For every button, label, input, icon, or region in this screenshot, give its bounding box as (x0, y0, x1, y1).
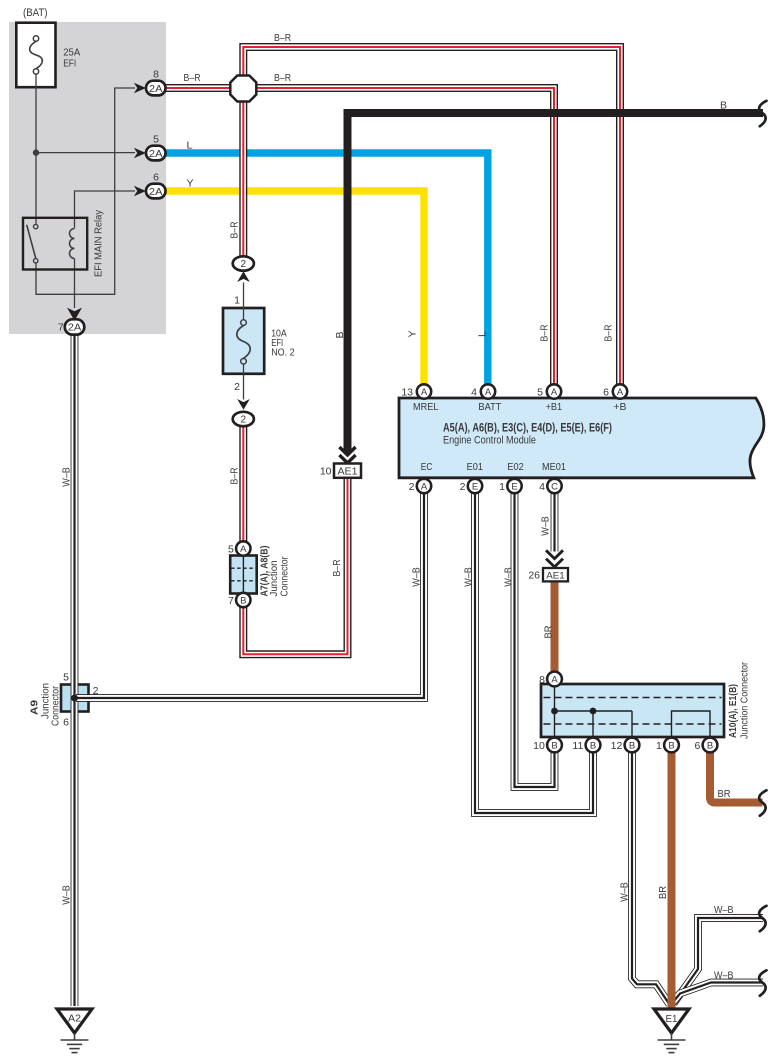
svg-text:W–B: W–B (412, 567, 423, 587)
svg-text:2A: 2A (149, 83, 163, 95)
svg-text:B–R: B–R (540, 325, 551, 342)
svg-text:B: B (720, 101, 727, 112)
svg-text:B: B (240, 595, 246, 606)
svg-text:6: 6 (603, 386, 609, 398)
svg-text:B–R: B–R (184, 73, 201, 84)
svg-text:5: 5 (63, 672, 69, 684)
svg-text:MREL: MREL (413, 401, 439, 413)
svg-text:B–R: B–R (230, 222, 241, 239)
svg-text:W–B: W–B (504, 567, 515, 587)
svg-text:A10(A), E1(B): A10(A), E1(B) (728, 684, 739, 738)
svg-text:2: 2 (241, 259, 247, 270)
svg-text:E1: E1 (666, 1014, 678, 1025)
svg-text:A: A (551, 387, 558, 398)
svg-text:2A: 2A (149, 148, 163, 160)
svg-text:A: A (421, 387, 428, 398)
svg-text:(BAT): (BAT) (23, 7, 48, 19)
svg-text:B: B (590, 740, 596, 751)
svg-text:B: B (335, 331, 346, 338)
svg-text:B–R: B–R (230, 468, 241, 485)
svg-text:5: 5 (228, 543, 234, 555)
svg-text:AE1: AE1 (338, 467, 358, 478)
svg-text:L: L (187, 141, 193, 152)
svg-text:A5(A), A6(B), E3(C), E4(D), E5: A5(A), A6(B), E3(C), E4(D), E5(E), E6(F) (443, 421, 612, 435)
svg-text:C: C (551, 481, 558, 492)
svg-text:A: A (240, 544, 247, 555)
svg-text:+B1: +B1 (546, 401, 563, 413)
svg-text:B: B (668, 740, 674, 751)
svg-text:BR: BR (544, 626, 555, 639)
svg-text:EC: EC (421, 461, 433, 473)
svg-text:L: L (478, 331, 489, 337)
svg-text:2: 2 (234, 381, 240, 393)
svg-text:B: B (629, 740, 635, 751)
svg-text:4: 4 (471, 386, 477, 398)
svg-text:2A: 2A (149, 186, 163, 198)
svg-text:1: 1 (234, 295, 240, 307)
svg-text:A: A (617, 387, 624, 398)
svg-text:1: 1 (499, 481, 505, 493)
svg-text:6: 6 (153, 172, 159, 184)
svg-text:2: 2 (460, 481, 466, 493)
svg-text:Connector: Connector (280, 556, 291, 597)
svg-text:6: 6 (63, 717, 69, 729)
svg-text:10: 10 (533, 740, 545, 752)
svg-text:BATT: BATT (478, 401, 502, 413)
svg-text:Y: Y (408, 330, 419, 337)
svg-text:W–B: W–B (62, 885, 73, 905)
svg-text:W–B: W–B (541, 516, 552, 536)
svg-text:+B: +B (613, 401, 626, 413)
svg-text:W–B: W–B (714, 971, 734, 982)
svg-text:EFI: EFI (63, 58, 76, 70)
svg-text:5: 5 (537, 386, 543, 398)
svg-text:5: 5 (153, 134, 159, 146)
svg-text:6: 6 (694, 740, 700, 752)
svg-text:W–B: W–B (620, 882, 631, 902)
svg-text:NO. 2: NO. 2 (271, 348, 295, 359)
svg-text:W–B: W–B (464, 567, 475, 587)
svg-text:E02: E02 (507, 461, 523, 473)
svg-text:E: E (472, 481, 478, 492)
svg-text:BR: BR (658, 886, 669, 899)
svg-text:11: 11 (572, 740, 583, 752)
svg-text:10: 10 (320, 466, 332, 478)
svg-text:Junction Connector: Junction Connector (740, 661, 751, 739)
svg-text:EFI MAIN Relay: EFI MAIN Relay (93, 209, 105, 277)
svg-text:2A: 2A (68, 322, 82, 334)
svg-text:Connector: Connector (51, 685, 62, 726)
svg-text:B–R: B–R (332, 560, 343, 577)
svg-text:B: B (707, 740, 713, 751)
svg-text:A: A (485, 387, 492, 398)
svg-text:A9: A9 (30, 700, 41, 715)
svg-text:26: 26 (528, 569, 540, 581)
svg-text:E: E (511, 481, 517, 492)
svg-text:13: 13 (401, 386, 413, 398)
svg-text:2: 2 (409, 481, 415, 493)
svg-text:A2: A2 (68, 1013, 81, 1024)
svg-text:7: 7 (58, 322, 64, 334)
svg-text:B: B (551, 740, 557, 751)
svg-text:W–B: W–B (62, 467, 73, 487)
svg-text:2: 2 (241, 415, 247, 426)
svg-text:A: A (551, 674, 558, 685)
svg-text:8: 8 (539, 674, 545, 686)
svg-text:W–B: W–B (714, 905, 734, 916)
svg-text:B–R: B–R (274, 73, 291, 84)
svg-text:Y: Y (187, 179, 194, 190)
svg-text:1: 1 (656, 740, 662, 752)
svg-text:4: 4 (539, 481, 545, 493)
svg-text:ME01: ME01 (542, 461, 566, 473)
svg-text:7: 7 (228, 595, 234, 607)
svg-text:AE1: AE1 (546, 570, 565, 581)
svg-text:Engine Control Module: Engine Control Module (443, 435, 536, 447)
svg-text:8: 8 (153, 69, 159, 81)
svg-text:Junction: Junction (269, 561, 280, 597)
svg-text:B–R: B–R (274, 33, 291, 44)
svg-text:E01: E01 (467, 461, 484, 473)
svg-text:A: A (421, 481, 428, 492)
svg-text:B–R: B–R (604, 325, 615, 342)
svg-text:2: 2 (93, 685, 99, 697)
svg-text:BR: BR (718, 789, 731, 800)
svg-text:12: 12 (611, 740, 623, 752)
